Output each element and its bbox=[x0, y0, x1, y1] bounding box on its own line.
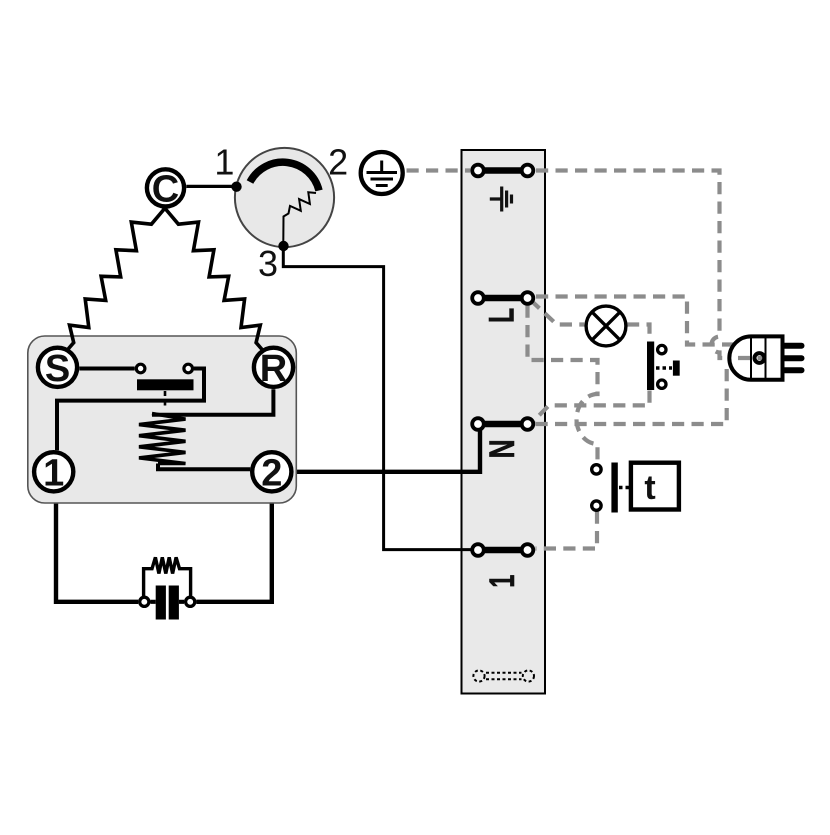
svg-text:R: R bbox=[260, 348, 287, 390]
svg-text:1: 1 bbox=[483, 575, 522, 588]
svg-text:t: t bbox=[644, 469, 655, 507]
svg-text:S: S bbox=[45, 348, 70, 390]
svg-text:2: 2 bbox=[261, 453, 282, 495]
svg-text:2: 2 bbox=[328, 142, 348, 183]
svg-text:C: C bbox=[152, 169, 179, 211]
svg-text:N: N bbox=[483, 439, 522, 458]
svg-text:3: 3 bbox=[258, 243, 278, 284]
svg-text:1: 1 bbox=[214, 142, 234, 183]
svg-text:1: 1 bbox=[43, 453, 64, 495]
svg-text:L: L bbox=[482, 308, 521, 323]
